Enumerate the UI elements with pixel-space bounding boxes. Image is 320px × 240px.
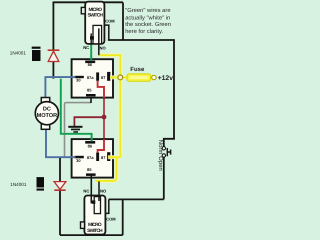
- wire: red relay1 87a down to junction: [98, 81, 104, 116]
- svg-text:Fuse: Fuse: [130, 66, 145, 73]
- junction node dot: [102, 115, 107, 120]
- diode D1 photo icon: [32, 47, 41, 61]
- svg-text:the socket. Green: the socket. Green: [125, 21, 171, 28]
- wire: green micro1 NC to relay1 pin86: [90, 44, 92, 61]
- micro switch SW2 (bottom) box: [84, 196, 105, 235]
- relay U2 box: [72, 139, 113, 178]
- relay U1 pin 85: [86, 94, 96, 96]
- wire: below push button down: [163, 157, 165, 199]
- micro switch SW1 inner contact block: [93, 25, 102, 43]
- wire: yellow into relay1 87 and fuse line: [110, 76, 152, 78]
- relay U1 box: [72, 59, 113, 97]
- svg-text:COM: COM: [105, 18, 115, 23]
- svg-text:NC: NC: [83, 45, 89, 50]
- +12v terminal circle: [152, 75, 156, 79]
- svg-text:85: 85: [87, 87, 92, 92]
- micro switch SW1 (top) box: [85, 2, 104, 44]
- wire: green stub into relay U1 pin 86: [90, 58, 92, 61]
- wire: green stub into relay U2 pin 86: [91, 138, 93, 142]
- svg-text:"Green" wires are: "Green" wires are: [125, 7, 170, 14]
- relay U1 pin 87: [107, 72, 110, 81]
- svg-text:30: 30: [76, 158, 81, 163]
- svg-text:1N4001: 1N4001: [10, 182, 27, 187]
- svg-text:87a: 87a: [87, 155, 94, 160]
- svg-text:SWITCH: SWITCH: [87, 228, 103, 234]
- svg-text:85: 85: [87, 167, 92, 172]
- micro switch SW1 lever + pivot: [90, 33, 92, 43]
- svg-text:MICRO: MICRO: [88, 7, 102, 13]
- micro switch SW2 pivot: [92, 200, 96, 203]
- svg-text:30: 30: [76, 78, 81, 83]
- svg-text:87: 87: [101, 155, 106, 160]
- wire: blue motor bottom to relay2 pin30: [46, 129, 77, 157]
- DC motor M1: [35, 98, 58, 130]
- wire: branch down x=122.4: [122, 199, 124, 235]
- relay U2 pin 87: [107, 152, 110, 161]
- svg-text:NO: NO: [100, 188, 107, 193]
- micro switch SW2 inner contact block: [94, 197, 100, 214]
- svg-text:86: 86: [88, 143, 93, 148]
- wire: up from bottom border to diode D2: [59, 191, 61, 235]
- svg-text:actually "white" in: actually "white" in: [125, 14, 170, 21]
- svg-text:1N4001: 1N4001: [10, 50, 27, 55]
- micro switch SW2 mounting lug: [81, 222, 85, 229]
- diode D1 (top) symbol: [48, 50, 60, 61]
- yellow stub inside relay U2 to 87: [108, 156, 114, 158]
- svg-text:NC: NC: [83, 188, 89, 193]
- red wire inside relay U1 from 87a: [98, 81, 104, 98]
- wire: COM elbow of top micro switch: [104, 25, 109, 40]
- fuse junction dot: [118, 75, 123, 80]
- relay U1 pin 86: [85, 61, 95, 64]
- diode D2 photo icon: [37, 177, 45, 191]
- relay U2 pin 87a: [96, 153, 99, 162]
- svg-text:87a: 87a: [87, 75, 94, 80]
- micro switch SW1 mounting lug: [81, 7, 85, 13]
- relay U2 pin 30: [74, 156, 83, 159]
- wire: dark red to ground: [74, 117, 102, 126]
- wire: yellow micro1 NO over to fuse column: [99, 54, 121, 56]
- wire: top border horizontal: [53, 1, 123, 3]
- wire: left border vertical down to diode D1: [52, 2, 54, 50]
- fuse F1 body: [127, 74, 151, 81]
- relay U1 pin 30: [74, 76, 83, 78]
- wire: relay1 pin85 stem: [90, 96, 92, 103]
- wire: relay2 85 stem down to SW2 NC: [90, 176, 92, 204]
- wire: right border vertical x=176: [173, 39, 175, 139]
- push button SW3 contact bottom: [162, 154, 165, 157]
- push button SW3 contact top: [162, 147, 165, 150]
- relay U2 pin 85: [86, 173, 96, 176]
- wire: blue stub into relay U1 pin 30: [70, 76, 75, 78]
- svg-text:+12v: +12v: [158, 75, 174, 82]
- wire: right vertical upper x=122.5: [122, 3, 124, 41]
- wire: bottom horizontal y=198.6: [109, 198, 164, 200]
- ground symbol: [68, 126, 82, 133]
- wire: blue stub into relay U2 pin 30: [70, 156, 75, 158]
- svg-text:MOTOR: MOTOR: [37, 113, 58, 119]
- red wire inside relay U2 to 87a: [98, 139, 104, 153]
- push button SW3 actuator: [167, 148, 170, 156]
- wire: below diode D1 to blue node: [52, 61, 54, 78]
- svg-text:86: 86: [88, 62, 93, 67]
- note text block: [125, 7, 171, 35]
- wire: gray jog under blue: [60, 156, 65, 158]
- wire: yellow into relay2 87: [108, 156, 120, 158]
- micro switch SW1 NO pin: [98, 28, 100, 55]
- diode D2 (bottom) symbol: [54, 182, 66, 191]
- wire: blue motor top to relay1 pin30: [45, 77, 76, 98]
- svg-text:Norm Open: Norm Open: [157, 140, 164, 171]
- svg-text:SWITCH: SWITCH: [87, 13, 103, 19]
- relay U1 pin 87a: [96, 72, 99, 80]
- svg-text:DC: DC: [43, 107, 51, 113]
- wire: yellow vertical x=120.7 down to relay2 87: [119, 54, 121, 157]
- svg-text:87: 87: [101, 75, 106, 80]
- wire: yellow relay2 87 bottom to micro2 NO: [96, 157, 118, 181]
- svg-text:NO: NO: [100, 45, 107, 50]
- svg-text:MICRO: MICRO: [88, 222, 102, 228]
- wire: long horizontal y=37.6: [108, 39, 174, 41]
- wire: above diode D2 up to blue node: [59, 157, 61, 181]
- wire: jog left to push button: [164, 139, 175, 147]
- wire: hook to bottom micro switch COM: [100, 199, 109, 213]
- yellow wires glow: [96, 55, 152, 181]
- relay U2 pin 86: [85, 141, 95, 144]
- wire: gray wire from relay1 pin85 down left side: [65, 103, 92, 158]
- wire: red junction down into relay2 87a: [98, 118, 104, 153]
- wire: bottom border y=233: [60, 234, 123, 236]
- svg-text:COM: COM: [106, 216, 116, 221]
- svg-text:here for clarity.: here for clarity.: [125, 28, 163, 35]
- wire: green long from blue node to relay2 pin86: [61, 79, 92, 142]
- micro switch SW2 NO pin: [98, 181, 100, 201]
